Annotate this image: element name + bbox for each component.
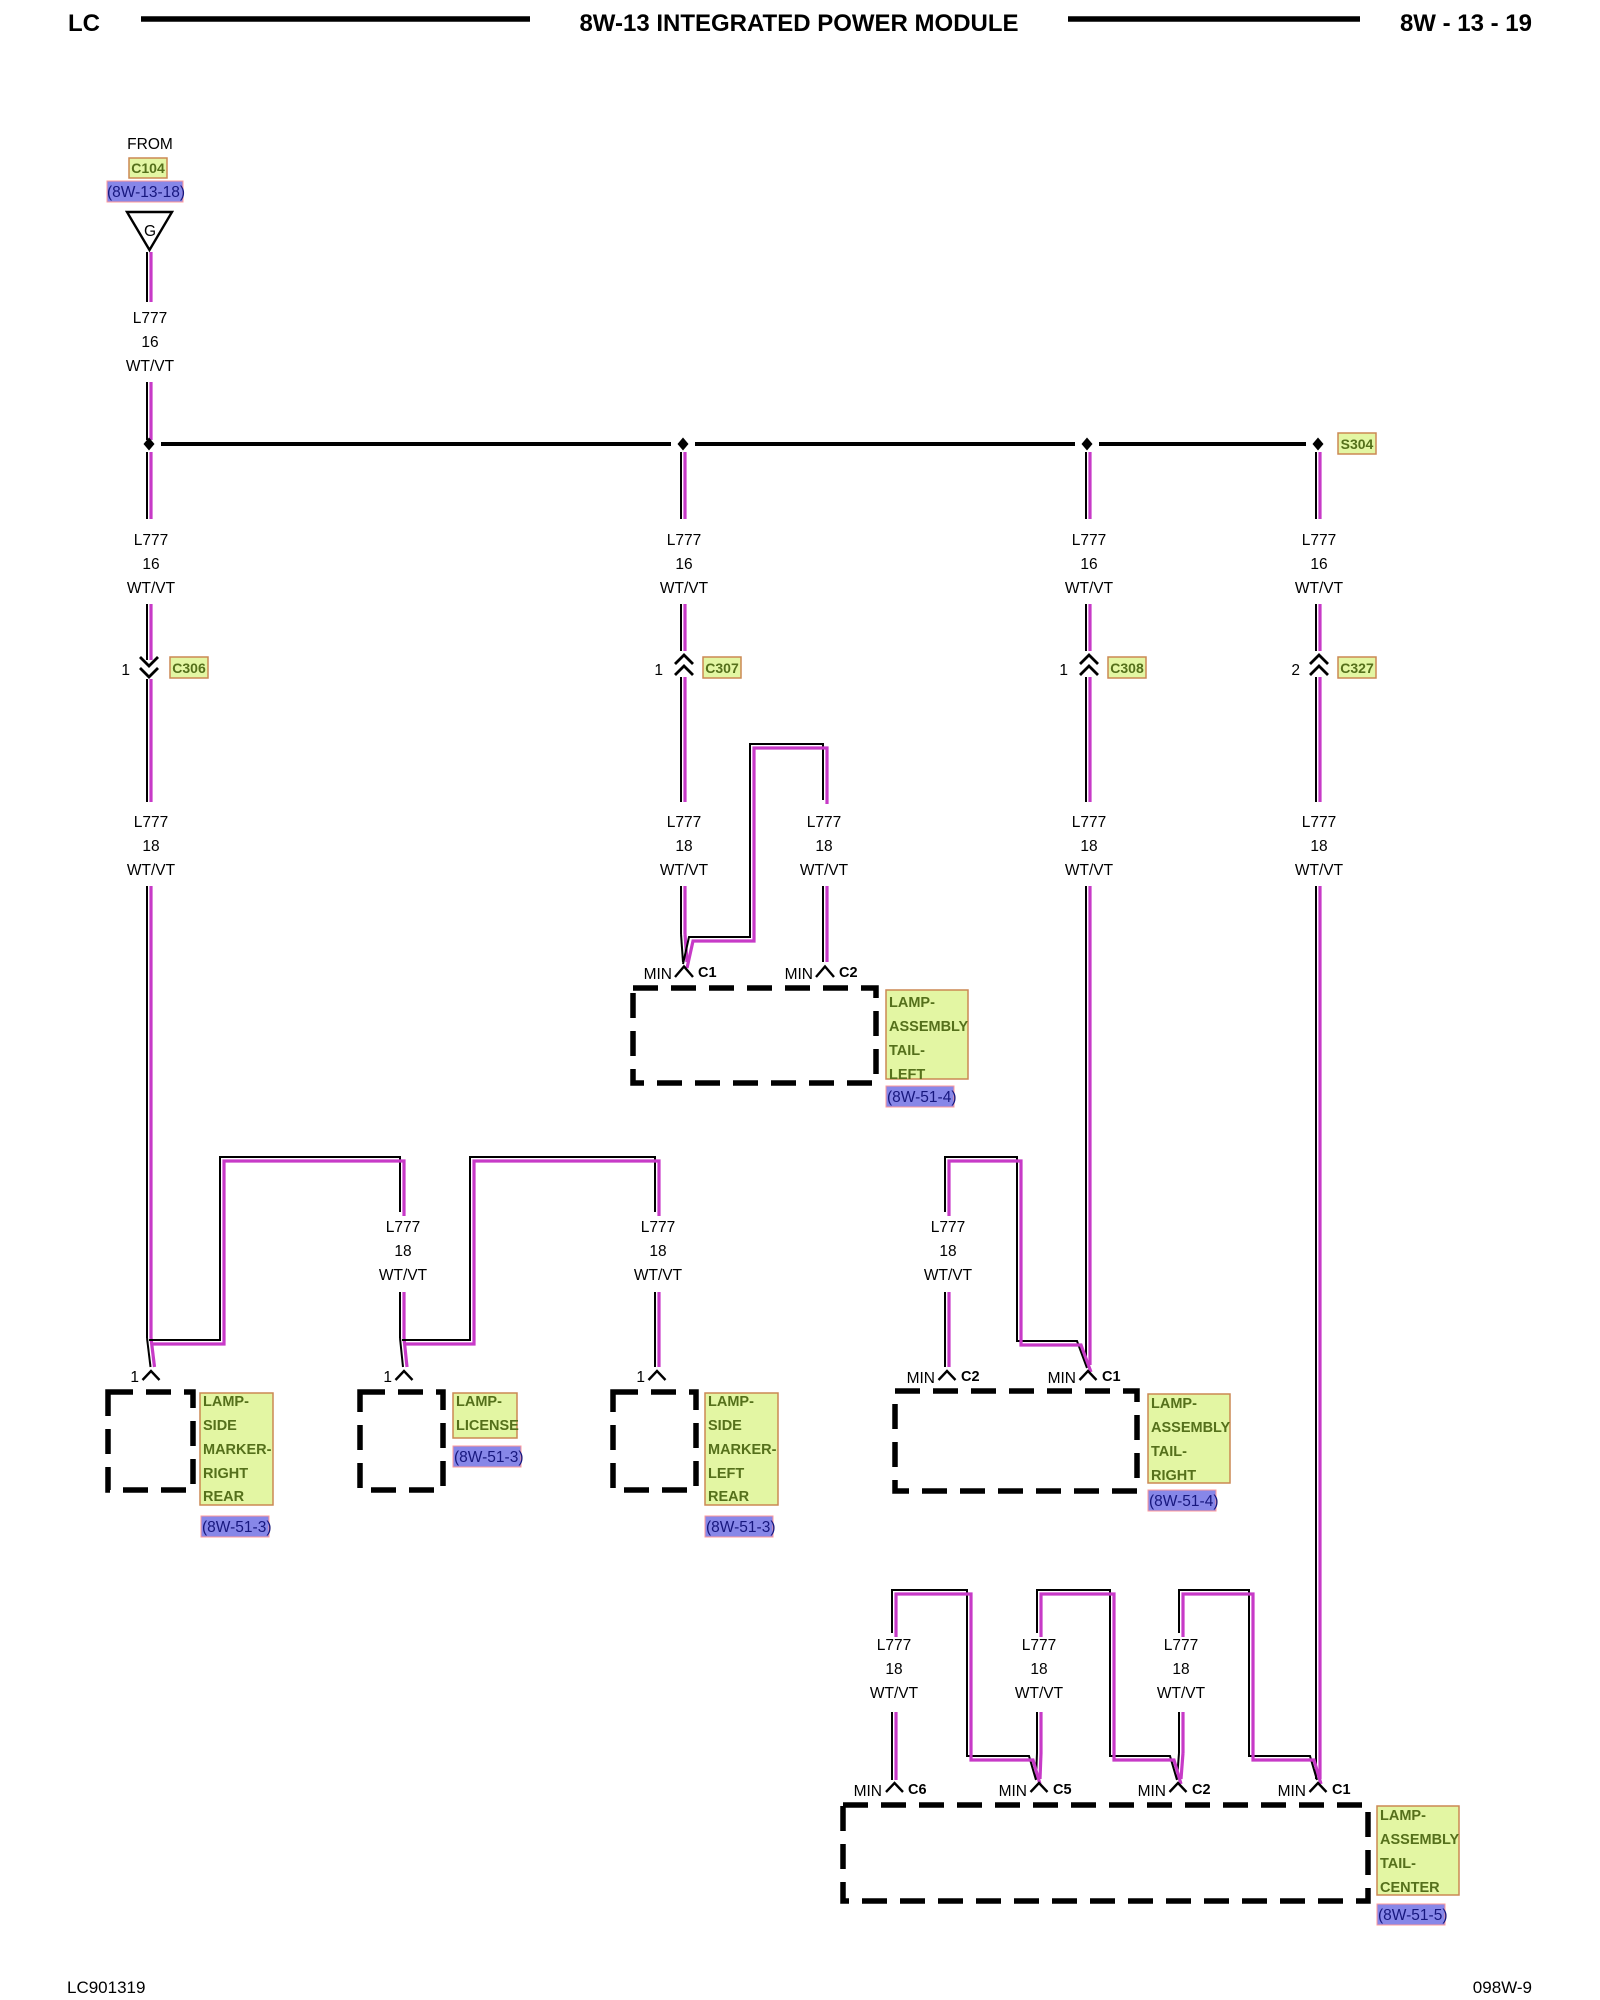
svg-text:LAMP-: LAMP- (889, 995, 935, 1011)
wire black outlines (branch loops) (149, 744, 1317, 1780)
svg-text:LC: LC (68, 10, 100, 37)
pin MIN C1 tail-left (675, 967, 693, 978)
svg-text:LEFT: LEFT (708, 1466, 744, 1482)
svg-text:L777: L777 (641, 1219, 675, 1236)
svg-text:C327: C327 (1340, 660, 1374, 676)
svg-text:RIGHT: RIGHT (1151, 1468, 1196, 1484)
svg-text:WT/VT: WT/VT (634, 1267, 683, 1284)
page ref (8W-51-3) marker-left (705, 1516, 773, 1537)
svg-text:L777: L777 (931, 1219, 965, 1236)
connector C327 (1310, 655, 1328, 675)
svg-text:18: 18 (1030, 1661, 1047, 1678)
svg-text:2: 2 (1291, 662, 1300, 679)
ground symbol G from C104 (127, 212, 172, 250)
pin MIN C6 tail-center (886, 1783, 903, 1792)
svg-text:098W-9: 098W-9 (1473, 1978, 1532, 1997)
svg-text:WT/VT: WT/VT (1065, 862, 1114, 879)
pin MIN C1 tail-center (1310, 1783, 1327, 1792)
svg-text:18: 18 (1080, 838, 1097, 855)
svg-text:L777: L777 (877, 1637, 911, 1654)
svg-text:G: G (144, 223, 156, 240)
svg-text:(8W-51-3): (8W-51-3) (454, 1449, 523, 1466)
svg-text:LAMP-: LAMP- (708, 1394, 754, 1410)
svg-text:18: 18 (815, 838, 832, 855)
wire magenta highlights (vertical runs) (151, 252, 1320, 1780)
svg-text:REAR: REAR (708, 1489, 750, 1505)
svg-text:L777: L777 (1072, 814, 1106, 831)
svg-text:ASSEMBLY: ASSEMBLY (889, 1019, 969, 1035)
svg-text:MIN: MIN (999, 1783, 1027, 1800)
label lamp-assembly tail-center (1377, 1806, 1459, 1895)
svg-text:C308: C308 (1110, 660, 1144, 676)
svg-text:MIN: MIN (854, 1783, 882, 1800)
svg-text:MARKER-: MARKER- (708, 1442, 777, 1458)
svg-text:TAIL-: TAIL- (1151, 1444, 1187, 1460)
svg-text:RIGHT: RIGHT (203, 1466, 248, 1482)
label lamp-license (453, 1393, 517, 1438)
pin 1 marker-right (143, 1371, 160, 1380)
label lamp-assembly tail-left (886, 990, 968, 1079)
svg-text:L777: L777 (1072, 532, 1106, 549)
svg-text:WT/VT: WT/VT (127, 580, 176, 597)
svg-text:(8W-51-5): (8W-51-5) (1378, 1907, 1447, 1924)
svg-text:16: 16 (1080, 556, 1097, 573)
svg-text:L777: L777 (1302, 532, 1336, 549)
svg-text:C2: C2 (961, 1369, 980, 1385)
svg-text:WT/VT: WT/VT (924, 1267, 973, 1284)
svg-text:L777: L777 (1164, 1637, 1198, 1654)
wire black outlines (vertical runs) (147, 252, 1316, 1780)
svg-text:1: 1 (654, 662, 663, 679)
pin MIN C2 tail-left (816, 967, 834, 978)
connector C308 (1080, 655, 1098, 675)
svg-text:1: 1 (130, 1369, 139, 1386)
svg-text:16: 16 (675, 556, 692, 573)
svg-text:L777: L777 (667, 532, 701, 549)
lamp license box (360, 1392, 443, 1490)
svg-text:MIN: MIN (907, 1370, 935, 1387)
svg-text:18: 18 (649, 1243, 666, 1260)
lamp assembly tail-center box (843, 1805, 1368, 1901)
svg-text:16: 16 (141, 334, 158, 351)
svg-text:REAR: REAR (203, 1489, 245, 1505)
pin MIN C5 tail-center (1031, 1783, 1048, 1792)
lamp assembly tail-right box (895, 1391, 1137, 1491)
svg-text:18: 18 (885, 1661, 902, 1678)
lamp side marker left rear box (613, 1392, 696, 1490)
wire splice bus S304 (161, 442, 1306, 446)
svg-text:18: 18 (394, 1243, 411, 1260)
svg-text:1: 1 (636, 1369, 645, 1386)
svg-text:MARKER-: MARKER- (203, 1442, 272, 1458)
svg-text:C306: C306 (172, 660, 206, 676)
svg-text:WT/VT: WT/VT (870, 1685, 919, 1702)
svg-text:WT/VT: WT/VT (1065, 580, 1114, 597)
svg-text:C2: C2 (1192, 1782, 1211, 1798)
svg-text:C2: C2 (839, 965, 858, 981)
pin 1 marker-left (649, 1371, 666, 1380)
page ref (8W-51-4) tail-right (1148, 1490, 1216, 1511)
svg-text:18: 18 (675, 838, 692, 855)
pin MIN C2 tail-right (939, 1371, 956, 1380)
junction dot col1 (144, 438, 155, 451)
svg-text:ASSEMBLY: ASSEMBLY (1151, 1420, 1231, 1436)
svg-text:L777: L777 (134, 532, 168, 549)
svg-text:LAMP-: LAMP- (1151, 1396, 1197, 1412)
svg-text:WT/VT: WT/VT (660, 580, 709, 597)
svg-text:C307: C307 (705, 660, 739, 676)
svg-text:L777: L777 (386, 1219, 420, 1236)
svg-text:18: 18 (1172, 1661, 1189, 1678)
svg-text:LEFT: LEFT (889, 1067, 925, 1083)
header rule left (141, 16, 530, 22)
svg-text:8W-13 INTEGRATED POWER MODULE: 8W-13 INTEGRATED POWER MODULE (579, 10, 1018, 37)
svg-text:ASSEMBLY: ASSEMBLY (1380, 1832, 1460, 1848)
svg-text:WT/VT: WT/VT (127, 862, 176, 879)
svg-text:LAMP-: LAMP- (1380, 1808, 1426, 1824)
junction dot col3 (1082, 438, 1093, 451)
svg-text:L777: L777 (807, 814, 841, 831)
page ref (8W-51-3) license (453, 1446, 521, 1467)
connector C307 (675, 655, 693, 675)
svg-text:MIN: MIN (1048, 1370, 1076, 1387)
svg-text:WT/VT: WT/VT (1295, 862, 1344, 879)
svg-text:(8W-51-3): (8W-51-3) (202, 1519, 271, 1536)
svg-text:18: 18 (1310, 838, 1327, 855)
svg-text:MIN: MIN (1138, 1783, 1166, 1800)
svg-text:(8W-13-18): (8W-13-18) (107, 184, 185, 201)
svg-text:(8W-51-4): (8W-51-4) (1149, 1493, 1218, 1510)
connector C306 (140, 657, 158, 677)
svg-text:FROM: FROM (127, 136, 173, 153)
lamp side marker right rear box (108, 1392, 193, 1490)
svg-text:C1: C1 (1332, 1782, 1351, 1798)
header rule right (1068, 16, 1360, 22)
svg-text:1: 1 (1059, 662, 1068, 679)
svg-text:LAMP-: LAMP- (456, 1394, 502, 1410)
svg-text:SIDE: SIDE (203, 1418, 237, 1434)
svg-text:C1: C1 (698, 965, 717, 981)
svg-text:MIN: MIN (644, 966, 672, 983)
svg-text:1: 1 (121, 662, 130, 679)
connector label C104 (129, 158, 167, 178)
svg-text:S304: S304 (1341, 436, 1374, 452)
svg-text:MIN: MIN (785, 966, 813, 983)
wire magenta highlights (branch loops) (153, 748, 1321, 1784)
page ref (8W-51-4) tail-left (886, 1086, 954, 1107)
page reference (8W-13-18) (107, 181, 183, 202)
junction dot col2 (678, 438, 689, 451)
svg-text:1: 1 (383, 1369, 392, 1386)
svg-text:LC901319: LC901319 (67, 1978, 145, 1997)
svg-text:18: 18 (939, 1243, 956, 1260)
svg-text:WT/VT: WT/VT (1015, 1685, 1064, 1702)
svg-text:SIDE: SIDE (708, 1418, 742, 1434)
label lamp-assembly tail-right (1148, 1394, 1230, 1483)
svg-text:(8W-51-4): (8W-51-4) (887, 1089, 956, 1106)
svg-text:L777: L777 (1022, 1637, 1056, 1654)
svg-text:WT/VT: WT/VT (660, 862, 709, 879)
svg-text:C5: C5 (1053, 1782, 1072, 1798)
pin 1 license (396, 1371, 413, 1380)
splice label S304 (1338, 433, 1376, 454)
svg-text:WT/VT: WT/VT (1295, 580, 1344, 597)
pin MIN C2 tail-center (1170, 1783, 1187, 1792)
svg-text:18: 18 (142, 838, 159, 855)
svg-text:WT/VT: WT/VT (126, 358, 175, 375)
page ref (8W-51-5) tail-center (1377, 1904, 1445, 1925)
svg-text:16: 16 (142, 556, 159, 573)
svg-text:L777: L777 (134, 814, 168, 831)
svg-text:CENTER: CENTER (1380, 1880, 1440, 1896)
svg-text:WT/VT: WT/VT (379, 1267, 428, 1284)
pin MIN C1 tail-right (1080, 1371, 1097, 1380)
svg-text:L777: L777 (667, 814, 701, 831)
svg-text:C6: C6 (908, 1782, 927, 1798)
junction dot col4 (1313, 438, 1324, 451)
page ref (8W-51-3) marker-right (201, 1516, 269, 1537)
label lamp side marker right rear (200, 1393, 273, 1505)
svg-text:LAMP-: LAMP- (203, 1394, 249, 1410)
svg-text:L777: L777 (1302, 814, 1336, 831)
lamp assembly tail-left box (633, 988, 876, 1083)
svg-text:TAIL-: TAIL- (1380, 1856, 1416, 1872)
svg-text:C104: C104 (131, 160, 165, 176)
svg-text:WT/VT: WT/VT (800, 862, 849, 879)
svg-text:L777: L777 (133, 310, 167, 327)
svg-text:C1: C1 (1102, 1369, 1121, 1385)
svg-text:MIN: MIN (1278, 1783, 1306, 1800)
svg-text:16: 16 (1310, 556, 1327, 573)
label lamp side marker left rear (705, 1393, 778, 1505)
svg-text:WT/VT: WT/VT (1157, 1685, 1206, 1702)
svg-text:8W - 13 - 19: 8W - 13 - 19 (1400, 10, 1532, 37)
svg-text:LICENSE: LICENSE (456, 1418, 519, 1434)
svg-text:(8W-51-3): (8W-51-3) (706, 1519, 775, 1536)
svg-text:TAIL-: TAIL- (889, 1043, 925, 1059)
